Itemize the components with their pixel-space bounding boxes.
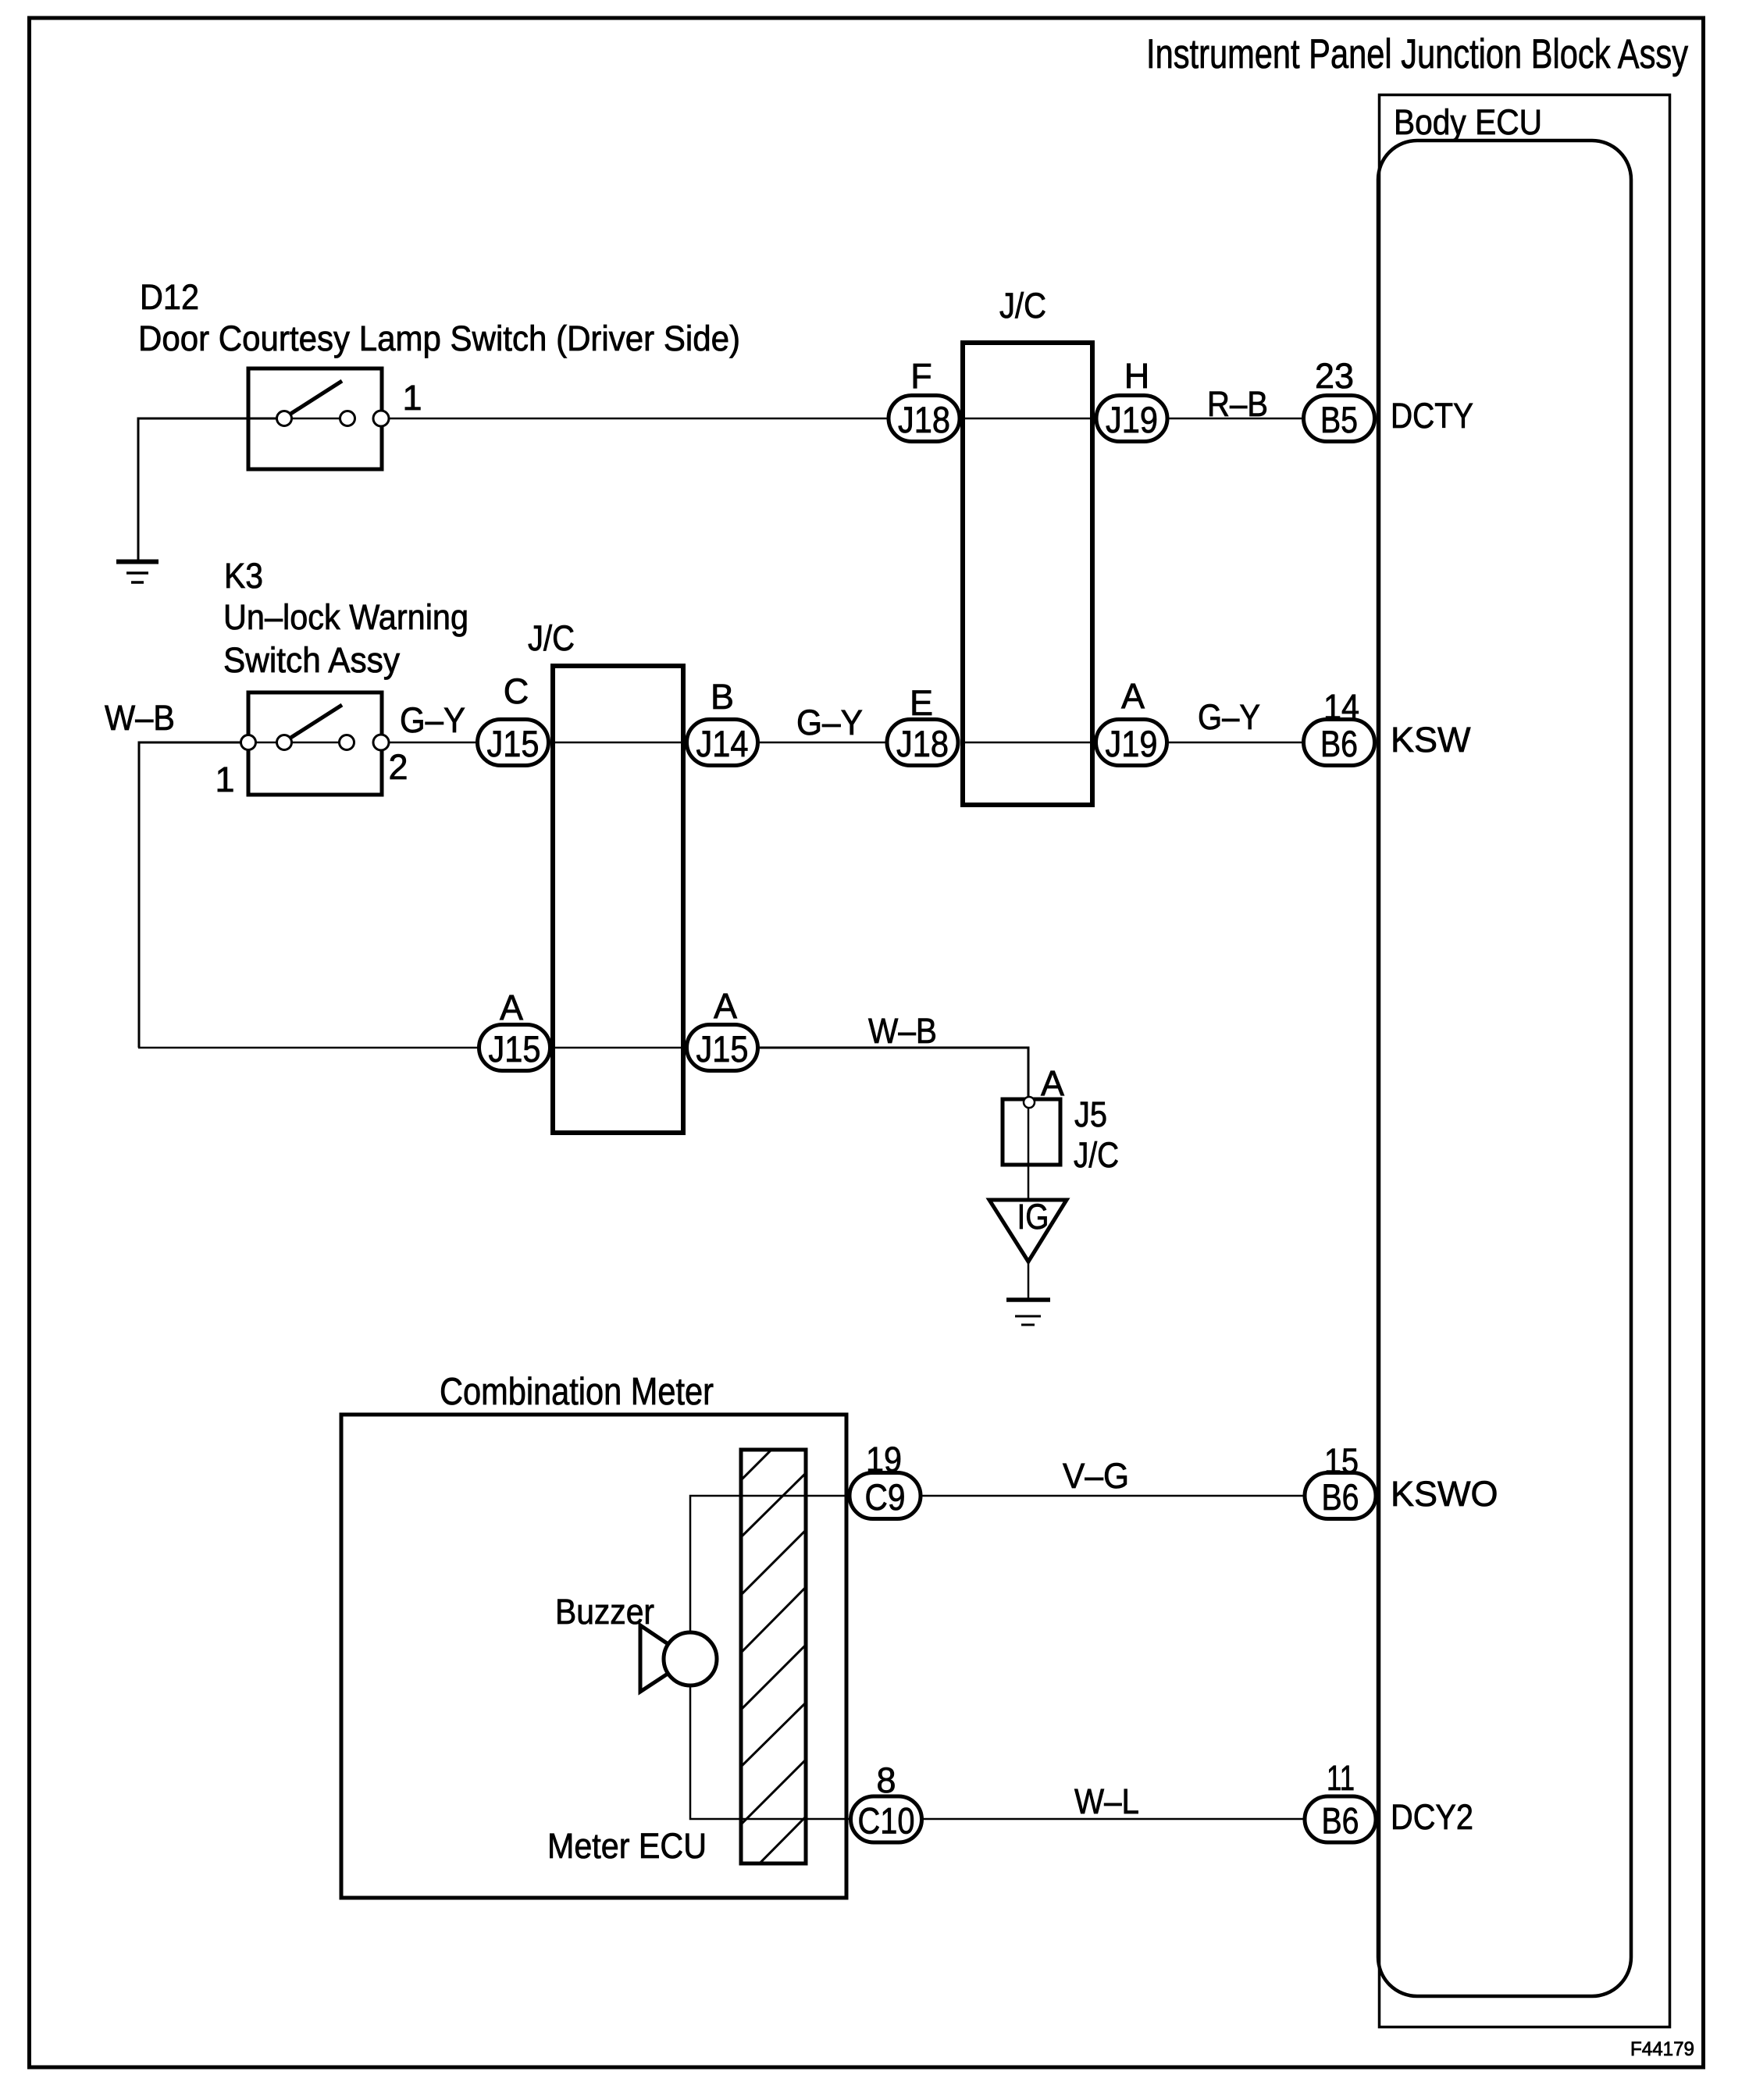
switch K3: Un-lock Warning Switch box [248, 692, 382, 795]
ECU U1: Body ECU rounded box [1378, 141, 1631, 1996]
svg-text:J14: J14 [696, 723, 749, 764]
buzzer horn (speaker cone) [640, 1625, 690, 1692]
svg-text:J5: J5 [1074, 1094, 1107, 1134]
svg-text:A: A [1041, 1063, 1064, 1103]
Combination Meter box [341, 1415, 846, 1898]
svg-text:B: B [711, 677, 734, 717]
connector J14 pin B [687, 720, 758, 766]
wire: through left J/C box row3 [553, 1047, 683, 1049]
wire: through left J/C box row2 [553, 742, 683, 744]
switch D12 arm [286, 381, 342, 417]
wire: through upper J/C box row1 [963, 418, 1092, 420]
svg-text:Instrument Panel Junction Bloc: Instrument Panel Junction Block Assy [1146, 31, 1688, 77]
wire: through upper J/C box row2 [963, 742, 1092, 744]
connector J19 pin A [1096, 720, 1167, 766]
svg-text:11: 11 [1327, 1758, 1355, 1798]
svg-text:Un–lock Warning: Un–lock Warning [223, 597, 468, 637]
wire: IG triangle to ground [1028, 1260, 1030, 1298]
svg-text:J/C: J/C [1074, 1135, 1119, 1175]
connector J18 pin E [887, 720, 958, 766]
connector B5 pin 23 [1304, 396, 1375, 442]
wire: inside D12 between contacts [291, 418, 340, 420]
svg-text:D12: D12 [140, 277, 199, 317]
svg-text:V–G: V–G [1063, 1456, 1129, 1496]
wire: J19 H to B5 [1169, 418, 1302, 420]
switch K3 pivot contact [277, 735, 292, 750]
junction connector box J/C (upper) [963, 343, 1092, 805]
switch D12: Door Courtesy Lamp Switch box [248, 368, 382, 469]
svg-text:B6: B6 [1322, 1800, 1359, 1842]
svg-text:J19: J19 [1106, 399, 1158, 440]
switch K3 pin-1 terminal [241, 735, 256, 750]
connector J15 pin A (right) [687, 1025, 758, 1071]
svg-text:G–Y: G–Y [400, 700, 465, 740]
svg-text:Body ECU: Body ECU [1394, 102, 1542, 142]
Meter ECU hatched connector bar [739, 1413, 808, 1942]
svg-text:Combination Meter: Combination Meter [440, 1371, 714, 1413]
buzzer circle [664, 1632, 717, 1685]
svg-text:C10: C10 [858, 1800, 915, 1842]
svg-text:IG: IG [1017, 1197, 1049, 1237]
svg-text:Switch Assy: Switch Assy [223, 640, 400, 680]
net IG: ground triangle [989, 1200, 1067, 1262]
svg-text:A: A [714, 986, 737, 1026]
junction connector box J/C (left) [553, 666, 683, 1133]
svg-text:1: 1 [215, 760, 234, 799]
svg-text:Meter ECU: Meter ECU [547, 1826, 707, 1866]
J5 pin A terminal circle [1024, 1097, 1035, 1108]
svg-text:J15: J15 [489, 1028, 541, 1070]
switch D12 fixed contact [340, 411, 355, 426]
connector C10 pin 8 [851, 1796, 922, 1842]
switch K3 fixed contact [340, 735, 354, 750]
svg-text:W–B: W–B [105, 698, 175, 738]
svg-text:K3: K3 [224, 556, 263, 596]
svg-text:A: A [500, 988, 523, 1027]
svg-text:J/C: J/C [999, 286, 1046, 326]
svg-text:J/C: J/C [528, 618, 575, 658]
svg-text:KSWO: KSWO [1391, 1474, 1498, 1514]
svg-text:W–L: W–L [1074, 1781, 1139, 1821]
ground G2 (below IG) [1006, 1300, 1050, 1325]
switch K3 pin-2 terminal [373, 735, 389, 750]
connector J18 pin F [889, 396, 960, 442]
svg-text:F44179: F44179 [1630, 2038, 1694, 2060]
svg-text:C9: C9 [865, 1476, 906, 1518]
connector J15 pin A (left) [479, 1025, 550, 1071]
switch D12 pin-1 terminal [373, 411, 389, 426]
connector B6 pin 14 [1304, 720, 1375, 766]
svg-text:DCTY: DCTY [1391, 396, 1473, 436]
wire: D12 ground lead (left vertical) [138, 418, 277, 560]
svg-text:J18: J18 [896, 723, 949, 764]
wire: J19 A to B6 14 [1168, 742, 1302, 744]
svg-text:C: C [504, 671, 529, 711]
wire: inside K3 between contacts [255, 742, 340, 744]
svg-text:E: E [910, 683, 933, 723]
svg-text:2: 2 [388, 747, 408, 787]
wire: row3 horizontal from left vertical to J15 A [138, 1047, 478, 1049]
wire V-G: C9 to B6 [922, 1495, 1304, 1497]
svg-text:DCY2: DCY2 [1391, 1797, 1473, 1837]
svg-text:1: 1 [402, 378, 422, 418]
wire: inside J5 down to IG triangle [1028, 1109, 1030, 1200]
svg-text:J15: J15 [487, 723, 540, 764]
wire R-B: D12 pin1 to J18 [389, 418, 887, 420]
connector C9 pin 19 [850, 1473, 921, 1519]
junction connector J5 box [1003, 1099, 1060, 1165]
Instrument Panel Junction Block Assy box [1380, 95, 1670, 2027]
svg-text:G–Y: G–Y [1198, 697, 1260, 737]
svg-text:F: F [910, 356, 932, 396]
svg-text:J15: J15 [696, 1028, 749, 1070]
svg-text:H: H [1124, 356, 1150, 396]
svg-text:KSW: KSW [1391, 720, 1471, 760]
svg-text:W–B: W–B [868, 1011, 937, 1051]
connector B6 pin 15 [1305, 1473, 1376, 1519]
svg-text:8: 8 [876, 1760, 896, 1800]
wire: K3 pin1 left + vertical down to row3 [139, 742, 241, 1048]
wire: J15 A to J5 junction, turn down [759, 1048, 1028, 1098]
svg-text:23: 23 [1315, 356, 1354, 396]
svg-text:B6: B6 [1320, 723, 1358, 764]
svg-text:Door Courtesy Lamp Switch (Dri: Door Courtesy Lamp Switch (Driver Side) [138, 319, 740, 358]
switch D12 pivot contact [277, 411, 292, 426]
switch K3 arm [286, 705, 342, 741]
connector J19 pin H [1096, 396, 1167, 442]
wire: K3 pin2 to J15 C [389, 742, 476, 744]
svg-text:J19: J19 [1106, 723, 1158, 764]
svg-text:B6: B6 [1322, 1476, 1359, 1518]
svg-text:J18: J18 [898, 399, 950, 440]
svg-text:G–Y: G–Y [796, 703, 863, 742]
ground G1 (below D12) [116, 562, 159, 583]
wire W-L: C10 to B6 [923, 1818, 1304, 1821]
wire: J14 B to J18 E [759, 742, 885, 744]
svg-text:A: A [1121, 676, 1145, 716]
Meter ECU internal wiring (thin box: C9 to buzzer to C10) [690, 1496, 850, 1819]
svg-text:B5: B5 [1320, 399, 1358, 440]
connector J15 pin C [478, 720, 549, 766]
connector B6 pin 11 [1305, 1796, 1376, 1842]
